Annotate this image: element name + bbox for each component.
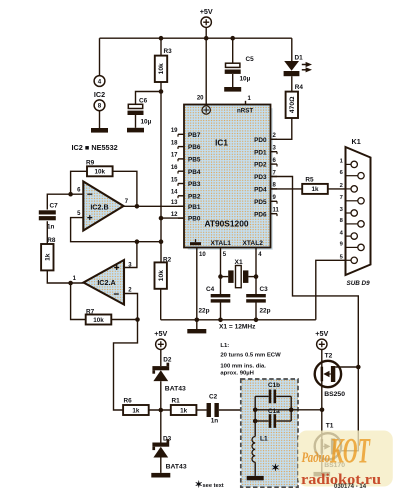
IC1 pin 5 XTAL1 [220,248,222,295]
wire IC2.A pin2 down to R6 [114,294,138,411]
node rail/R3 [159,36,164,41]
svg-text:C3: C3 [260,286,269,293]
svg-text:BS250: BS250 [324,391,345,398]
svg-text:+5V: +5V [315,329,328,338]
svg-text:C7: C7 [50,202,59,209]
node rail/C5 [230,36,235,41]
capacitor C3 22p [246,294,266,297]
node X1 right [254,274,259,279]
op-amp IC2.B [83,182,123,231]
+5V symbol D2 [156,339,166,349]
svg-text:PD6: PD6 [254,211,267,218]
svg-text:L1:: L1: [220,343,229,349]
wire C2 to tank [219,409,255,411]
wire R6-R1 [149,409,171,411]
IC1 pin 4 XTAL2 [255,248,257,295]
wire T1 gate lead [335,450,358,452]
svg-text:T1: T1 [326,423,334,430]
node output/R9 [135,204,140,209]
ground C6 [127,128,144,133]
resistor R3 [160,38,162,56]
svg-text:XTAL1: XTAL1 [211,240,232,247]
svg-text:PB0: PB0 [188,216,201,223]
svg-text:4: 4 [98,78,102,85]
svg-text:D1: D1 [295,55,304,62]
svg-text:2: 2 [340,183,343,189]
ground D3 [151,473,170,478]
svg-text:19: 19 [171,128,178,134]
svg-text:T2: T2 [325,353,333,360]
svg-text:10µ: 10µ [240,76,251,83]
svg-text:R6: R6 [124,397,133,404]
IC2 supply pin 8 [94,100,105,111]
+5V symbol T2 [317,339,327,349]
ground rail [161,319,316,321]
IC1 pin 7 PD3 [271,176,278,178]
svg-text:R5: R5 [305,176,314,183]
svg-text:X1 = 12MHz: X1 = 12MHz [219,324,256,331]
svg-text:R4: R4 [295,84,304,91]
svg-text:PD1: PD1 [254,149,267,156]
svg-text:1k: 1k [311,186,319,193]
svg-text:100 mm ins. dia.: 100 mm ins. dia. [220,364,266,370]
svg-text:see text: see text [203,483,224,489]
K1 pin 7 [346,200,358,202]
IC1 pin 15 PB3 [178,183,184,185]
K1 pin 4 [346,235,351,237]
diode D3 BAT43 [160,410,162,443]
wire PD3 to gates [271,177,359,451]
node bias/IC2.A pin3 [135,239,140,244]
svg-text:R8: R8 [47,237,56,244]
svg-text:PB3: PB3 [188,181,201,188]
ground L1 [247,476,264,480]
svg-text:10k: 10k [93,317,104,324]
svg-text:8: 8 [98,103,102,110]
svg-text:R1: R1 [172,397,181,404]
node rail pin10 [195,318,200,323]
wire to IC2.A pin3 [124,242,137,268]
node rail C4 [218,318,223,323]
IC1 pin 14 PB2 [178,195,184,197]
IC1 pin 17 PB5 [178,158,184,160]
IC1 pin 6 PD2 [271,163,278,165]
svg-text:✶: ✶ [271,463,279,474]
K1 pin 1 [346,163,351,165]
resistor R4 470R [291,76,293,92]
ground symbol on rail [196,320,198,329]
IC1 pin 12 PB0 [178,217,184,219]
wire C7 to pin6 [47,194,83,209]
svg-text:IC2 ■ NE5532: IC2 ■ NE5532 [72,143,118,152]
ground C5 [224,87,241,92]
wire PB0 [161,217,184,219]
svg-text:10k: 10k [158,63,165,74]
wire R3 to C6 branch node [160,82,162,92]
svg-text:nRST: nRST [237,108,253,115]
ground IC2 [91,128,108,133]
op-amp IC2.A [84,260,125,305]
svg-text:PB2: PB2 [188,193,201,200]
svg-text:1k: 1k [180,407,188,414]
svg-text:PB7: PB7 [188,132,201,139]
resistor R8 1k [46,221,48,244]
node gates [356,365,361,370]
IC1 pin 10 [196,248,198,320]
svg-text:+5V: +5V [154,329,167,338]
wire +5V top rail [100,37,292,39]
node bias line [159,239,164,244]
node tank left [253,408,258,413]
IC IC1 AT90S1200 [188,108,273,250]
IC2 supply pin 4 [94,76,105,87]
resistor R5 1k [271,188,303,190]
svg-text:R3: R3 [164,48,173,55]
capacitor C4 22p [211,294,231,297]
svg-text:1n: 1n [211,418,219,425]
svg-text:BAT43: BAT43 [166,464,187,471]
node pin2/R7 [135,317,140,322]
K1 pin 8 [346,223,358,225]
capacitor C5 10u [232,38,234,63]
IC1 pin 8 PD4 [271,188,278,190]
ground T1 [314,472,331,477]
svg-text:PD3: PD3 [254,174,267,181]
node rail C3 [254,318,259,323]
svg-text:10µ: 10µ [141,119,152,126]
svg-text:PD5: PD5 [254,199,267,206]
svg-text:17: 17 [171,153,178,159]
K1 pin 6 [346,175,358,177]
IC1 pin 20 VCC [205,38,207,104]
svg-text:IC2: IC2 [94,90,105,99]
K1 pin 9 [346,246,358,248]
node rail/IC1 pin20 [204,36,209,41]
wire C6 branch [136,92,162,105]
wire IC2 supply branch [99,38,101,75]
wire tank left rail [254,396,256,421]
node output/R8/R7 [68,281,73,286]
svg-text:XTAL2: XTAL2 [243,240,264,247]
wire bias line R3-PB0-R2 [160,92,162,263]
svg-text:PB4: PB4 [188,169,201,176]
svg-text:C4: C4 [206,286,215,293]
svg-text:L1: L1 [260,436,268,443]
wire R4 to PD0 [271,118,292,139]
node tank L1 [253,419,258,424]
capacitor C6 10u [128,104,142,108]
svg-text:BAT43: BAT43 [165,386,186,393]
svg-text:10: 10 [199,252,206,258]
wire tank through [255,409,291,411]
IC1 pin 13 PB1 [178,205,184,207]
svg-text:20: 20 [197,96,204,102]
svg-text:10k: 10k [158,270,165,281]
wire pin5 to bias [71,218,161,242]
node X1 left [218,274,223,279]
svg-text:20 turns 0.5 mm ECW: 20 turns 0.5 mm ECW [220,353,281,359]
svg-text:1k: 1k [132,407,140,414]
node R3/C6 [159,89,164,94]
svg-text:PD0: PD0 [254,137,267,144]
svg-text:10k: 10k [95,169,106,176]
svg-text:IC2.A: IC2.A [97,278,115,287]
svg-text:КОТ: КОТ [329,431,371,471]
wire R8 to IC2.A output [47,270,83,283]
svg-text:aprox. 90µH: aprox. 90µH [220,370,254,376]
IC1 pin 11 PD6 [271,213,278,215]
svg-text:C1b: C1b [268,382,280,389]
K1 pin 3 [346,212,351,214]
svg-text:PB1: PB1 [188,204,201,211]
svg-text:K1: K1 [352,137,361,146]
svg-text:C6: C6 [139,98,148,105]
IC1 pin 2 PD0 [271,138,278,140]
+5V supply symbol top [201,17,211,27]
IC1 pin 19 PB7 [178,133,184,135]
wire K1 pin5 to ground rail [316,260,346,320]
svg-text:AT90S1200: AT90S1200 [204,219,248,229]
svg-text:470Ω: 470Ω [289,96,296,113]
K1 pin 2 [346,188,351,190]
svg-text:1n: 1n [47,224,55,231]
node PB0/bias [159,216,164,221]
wire IC2.B output to PB1 [124,205,185,207]
IC1 pin 18 PB6 [178,146,184,148]
svg-text:7: 7 [340,195,343,201]
svg-text:C1a: C1a [268,408,280,415]
svg-text:15: 15 [171,177,178,183]
svg-text:PB5: PB5 [188,157,201,164]
svg-text:IC2.B: IC2.B [90,203,108,212]
svg-text:D2: D2 [163,357,172,364]
LED D1 [291,38,293,61]
svg-text:16: 16 [171,165,178,171]
dashed box tank circuit [241,379,298,487]
wire T2 gate lead [335,366,358,368]
node pin6/R9 [68,192,73,197]
svg-text:SUB D9: SUB D9 [347,280,371,287]
IC1 pin 16 PB4 [178,170,184,172]
svg-text:C2: C2 [209,394,218,401]
resistor R7 10k feedback [71,283,86,320]
svg-text:+5V: +5V [200,7,213,16]
svg-text:PD4: PD4 [254,187,267,194]
IC1 internal ground marker pin10 [190,242,201,245]
node T1/T2 drains tank [320,408,325,413]
K1 pin 5 [346,259,351,261]
svg-text:22p: 22p [199,308,210,315]
svg-text:PB6: PB6 [188,144,201,151]
svg-text:14: 14 [171,190,178,196]
IC1 pin 9 PD5 [271,200,278,202]
svg-text:IC1: IC1 [215,139,228,148]
wire tank right rail [290,396,292,421]
svg-text:PD2: PD2 [254,162,267,169]
svg-text:12: 12 [171,212,178,218]
IC1 pin 3 PD1 [271,151,278,153]
svg-text:030174 - 14: 030174 - 14 [334,484,367,490]
svg-text:Радио: Радио [302,450,331,466]
wire tank to T1/T2 node [291,409,322,411]
svg-text:22p: 22p [260,308,271,315]
IC1 pin 1 nRST stub [245,101,247,105]
node R6/R1/D2/D3 [159,408,164,413]
svg-text:1k: 1k [45,253,52,261]
svg-text:C5: C5 [246,56,255,63]
svg-text:11: 11 [273,208,280,214]
svg-text:13: 13 [171,200,178,206]
node tank right [289,408,294,413]
svg-text:18: 18 [171,140,178,146]
watermark radiokot [298,431,393,487]
